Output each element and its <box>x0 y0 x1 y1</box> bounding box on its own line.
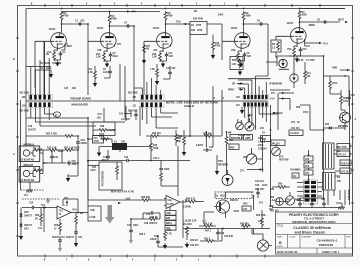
down arrow C5 <box>49 72 53 78</box>
svg-text:.022: .022 <box>169 56 174 58</box>
svg-text:920B: 920B <box>58 151 64 153</box>
svg-text:47UF: 47UF <box>332 82 338 85</box>
resistor R64 <box>225 136 228 146</box>
svg-text:10UF: 10UF <box>133 225 139 227</box>
svg-text:C28 .0047UF: C28 .0047UF <box>144 222 158 225</box>
second bus line <box>88 165 99 167</box>
small arrow mark <box>118 202 121 204</box>
svg-text:REV: REV <box>347 237 352 239</box>
svg-text:A3 02145 AB: A3 02145 AB <box>20 159 34 162</box>
vertical connector block <box>304 180 318 204</box>
cathode network V1B <box>104 48 107 52</box>
svg-text:22A373: 22A373 <box>28 129 37 132</box>
svg-text:4.7K: 4.7K <box>167 233 172 236</box>
relay K1 dark block <box>112 143 127 150</box>
svg-text:470K: 470K <box>197 29 203 32</box>
svg-text:HTR: HTR <box>131 12 136 14</box>
svg-text:.022: .022 <box>80 21 85 23</box>
long vertical right of footswitch <box>161 146 178 196</box>
svg-text:55A373 C13: 55A373 C13 <box>52 236 65 239</box>
wire R4 to tube V1B <box>110 23 135 60</box>
svg-text:L.DLDR C2R: L.DLDR C2R <box>183 221 197 223</box>
right border inner vertical <box>349 90 351 205</box>
svg-text:.0047: .0047 <box>90 169 96 172</box>
jack box 1 <box>19 146 40 162</box>
jack box 2 <box>19 167 40 183</box>
ground V2B cathode <box>239 62 243 68</box>
ground V2A cathode <box>161 62 165 68</box>
ground top gray <box>46 198 50 204</box>
chassis gnd right <box>338 207 344 209</box>
svg-text:FXA: FXA <box>176 21 181 24</box>
svg-text:A011: A011 <box>220 195 226 198</box>
wires right section mesh <box>270 76 349 130</box>
wire bus y161 <box>88 160 190 162</box>
speaker wires <box>254 229 273 246</box>
ground V3A cathode <box>295 57 299 63</box>
svg-text:0.2R2B: 0.2R2B <box>183 207 191 209</box>
label stack under op-amp <box>165 211 176 216</box>
resistor R35 <box>141 199 151 202</box>
resistor R45 <box>203 225 213 228</box>
resistor R6 box left of V3A <box>271 40 281 52</box>
cathode network V2B <box>238 48 241 52</box>
svg-text:FWD: FWD <box>332 68 337 70</box>
resistor cathode V3A <box>293 47 296 57</box>
svg-text:A3B: A3B <box>258 137 263 140</box>
cap C10 box <box>93 136 104 144</box>
svg-text:47UF: 47UF <box>94 140 100 143</box>
capacitor C8 cathode V2B <box>243 52 247 57</box>
svg-text:1.5K: 1.5K <box>232 64 237 66</box>
resistor R9 plate V2B <box>242 11 245 21</box>
resistor R16 to ground <box>212 41 215 51</box>
pot circle left <box>236 122 244 130</box>
svg-text:PREAMP BOARD: PREAMP BOARD <box>71 97 92 100</box>
svg-text:C7 470P: C7 470P <box>306 59 315 62</box>
svg-text:22UF: 22UF <box>258 145 264 147</box>
svg-text:FOOTSWITCH: FOOTSWITCH <box>103 171 105 186</box>
svg-text:47UF: 47UF <box>285 199 291 202</box>
cap C12b <box>204 148 209 152</box>
bus y78.7 <box>228 78 271 80</box>
cap C31 <box>129 228 133 233</box>
separator vertical line <box>323 56 325 200</box>
capacitor C9 cathode V1B <box>109 52 113 57</box>
svg-text:4700: 4700 <box>343 100 349 103</box>
svg-text:345V: 345V <box>218 14 224 17</box>
svg-text:CABLE.: CABLE. <box>184 104 195 108</box>
svg-text:.830V: .830V <box>66 46 72 48</box>
box with label MPS <box>289 130 303 136</box>
svg-text:.022: .022 <box>247 56 252 58</box>
ground R62 <box>182 150 186 156</box>
transformer T2 <box>323 173 336 191</box>
svg-text:47UF: 47UF <box>303 111 309 114</box>
resistor R18 cathode V2A <box>159 52 162 62</box>
box R010 cathode V2B <box>230 57 243 70</box>
wire to tube V3A <box>300 19 341 28</box>
svg-text:A7C 4: A7C 4 <box>153 157 160 160</box>
wires into J21 top <box>134 78 161 95</box>
cap C23 <box>50 154 54 159</box>
svg-text:VB: VB <box>232 84 236 86</box>
connector J20/J10 <box>29 94 53 107</box>
svg-text:1.AA.2: 1.AA.2 <box>258 141 266 144</box>
svg-text:14.V: 14.V <box>270 98 275 101</box>
resistor R4 plate V1B <box>108 14 111 24</box>
reverb pot circle <box>246 154 256 164</box>
resistor R55 <box>75 215 78 225</box>
wire x88 down <box>87 139 89 200</box>
resistor R46 <box>186 226 189 236</box>
board boundary line <box>26 100 268 102</box>
connector J3 right (large) <box>243 95 269 108</box>
junction dots <box>87 23 89 25</box>
svg-text:27V: 27V <box>240 171 245 173</box>
ground under J12 <box>240 108 244 114</box>
horizontals under connectors <box>31 118 125 139</box>
resistor R56 <box>59 222 62 232</box>
capacitor C8 coupling <box>258 22 263 26</box>
svg-text:0.22UF: 0.22UF <box>196 145 204 147</box>
svg-text:16V: 16V <box>321 199 326 201</box>
svg-text:12AX7: 12AX7 <box>97 27 105 30</box>
svg-text:PSM: PSM <box>112 19 117 21</box>
resistor R2 jack2 <box>34 169 44 172</box>
hook wires <box>213 86 224 147</box>
resistor R60 <box>340 95 343 105</box>
ground diodes <box>19 234 23 240</box>
wires into J20 top <box>31 42 51 95</box>
svg-text:R12 56: R12 56 <box>296 60 304 62</box>
op-amp U2A <box>166 196 180 209</box>
svg-text:1N4737: 1N4737 <box>66 236 75 239</box>
ground C29 <box>163 243 167 249</box>
transistor Q2 <box>340 112 351 123</box>
cap C41b <box>134 112 138 117</box>
right column boxes <box>337 144 350 150</box>
wire R8 to tube V2A <box>166 20 191 136</box>
transistor Q1 <box>216 200 229 213</box>
resistor R3 cathode V1A <box>53 51 56 61</box>
resistor R43 <box>241 225 251 228</box>
resistor R27 <box>100 138 110 141</box>
reverb jack circle2 <box>222 175 233 186</box>
svg-text:1.5K: 1.5K <box>150 69 155 71</box>
svg-text:SIG GND: SIG GND <box>128 93 138 95</box>
cap C45 <box>322 201 326 206</box>
svg-text:R45 2.2K: R45 2.2K <box>203 223 213 226</box>
svg-text:R17 1.5K: R17 1.5K <box>47 148 57 150</box>
FWD arrow <box>347 69 350 71</box>
svg-text:470K: 470K <box>215 45 221 48</box>
svg-text:22A2: 22A2 <box>113 55 119 58</box>
transformer T1 <box>323 143 335 169</box>
tube V3A <box>291 28 307 44</box>
ground R17 <box>142 58 146 64</box>
arrow NEXT <box>345 21 348 23</box>
wires into vert connector <box>297 183 322 201</box>
svg-text:5K: 5K <box>35 219 38 221</box>
svg-text:MERIDIAN, MISSISSIPPI 39301: MERIDIAN, MISSISSIPPI 39301 <box>292 220 336 224</box>
svg-text:750K: 750K <box>246 16 252 18</box>
resistor R20 <box>150 142 153 152</box>
wire op-amp input down <box>43 208 45 233</box>
cap C53 <box>67 160 71 165</box>
svg-text:CH: CH <box>293 176 297 178</box>
grid wire V1A <box>35 41 51 95</box>
grid resistor R17 V2A <box>143 44 146 54</box>
capacitor C4 coupling <box>125 24 130 28</box>
svg-text:-C10: -C10 <box>259 128 265 130</box>
pot PRE GAIN <box>279 59 287 67</box>
svg-text:1.AA.2: 1.AA.2 <box>270 199 278 202</box>
svg-text:R010: R010 <box>232 60 238 62</box>
svg-text:R63 68K: R63 68K <box>203 134 212 136</box>
ground R55 <box>74 241 78 247</box>
bottom bus <box>183 200 270 238</box>
wire send to rail <box>289 56 324 88</box>
ground C18 <box>66 176 70 182</box>
resistor R57 <box>64 135 74 138</box>
jack output wire <box>40 153 48 174</box>
svg-text:R66 0.22: R66 0.22 <box>186 199 196 201</box>
svg-text:R40 A: R40 A <box>139 233 146 236</box>
cap C50 <box>347 95 351 100</box>
svg-text:JP1 2.2: JP1 2.2 <box>338 155 347 157</box>
tube V1B <box>101 33 117 49</box>
svg-text:PREH: PREH <box>228 90 235 92</box>
jack circle 2 <box>23 170 29 176</box>
long verticals V1B to connector <box>120 60 134 118</box>
output jack J9 <box>257 240 268 251</box>
pot circle plus <box>276 198 284 206</box>
tube V2B <box>235 33 251 49</box>
cathode network V1A <box>54 44 68 51</box>
ground K1 <box>97 151 101 157</box>
resistor R51b <box>205 240 215 243</box>
resistor R26 <box>175 133 178 143</box>
dashed chassis line <box>21 190 61 199</box>
svg-text:12AX7: 12AX7 <box>287 22 295 25</box>
svg-text:TITLE: TITLE <box>277 225 284 228</box>
svg-text:V1A: V1A <box>47 51 52 54</box>
svg-text:R46 2R: R46 2R <box>190 239 198 242</box>
right mesh wires <box>328 146 353 205</box>
svg-text:C4B: C4B <box>90 209 95 212</box>
FX send jack <box>279 59 287 67</box>
connector J2 mid <box>140 94 164 107</box>
ground C31 gray <box>129 238 133 244</box>
svg-text:VR4: VR4 <box>243 203 248 206</box>
svg-text:JP2 2B: JP2 2B <box>341 172 349 174</box>
feedback loop U3B <box>63 199 88 213</box>
resistor R34 <box>40 213 43 223</box>
border zone ticks left <box>16 38 19 236</box>
svg-text:CR4: CR4 <box>24 228 29 231</box>
svg-text:R29 10K: R29 10K <box>255 189 264 191</box>
svg-text:27V: 27V <box>259 203 264 205</box>
cap C12 <box>125 159 130 163</box>
svg-text:JP 47UF: JP 47UF <box>338 146 347 149</box>
resistor R23 horizontal <box>150 135 160 138</box>
wires out J11 bottom <box>142 108 178 129</box>
svg-text:SIZE: SIZE <box>277 237 282 239</box>
svg-text:V2A: V2A <box>153 49 158 52</box>
svg-text:J7B: J7B <box>270 189 275 191</box>
svg-text:EFX: EFX <box>279 157 284 159</box>
dashed box J11 <box>215 192 252 199</box>
ground R14b <box>93 81 97 87</box>
capacitor cathode V3A <box>299 47 303 52</box>
large gray ground arrow <box>105 205 115 224</box>
top right rail <box>300 8 346 10</box>
svg-text:NUMBER: NUMBER <box>302 237 312 239</box>
svg-text:1N4737: 1N4737 <box>24 224 33 227</box>
box PRE row2 <box>229 144 239 150</box>
capacitor C2 cathode V1A <box>59 51 63 56</box>
arrow on heater wire <box>127 10 130 12</box>
arrow FX A <box>319 42 322 44</box>
svg-text:MAIN BOARD: MAIN BOARD <box>72 103 88 106</box>
resistor R2 plate V1A <box>60 11 63 21</box>
svg-text:.06800: .06800 <box>308 25 316 27</box>
resistor R14b <box>94 70 97 80</box>
wire pot to vertical <box>257 136 263 172</box>
wires into J22 top <box>238 76 266 95</box>
svg-text:R35 63B: R35 63B <box>141 197 150 199</box>
svg-text:NEXT: NEXT <box>338 20 345 22</box>
wire to C5 arrow <box>26 66 51 68</box>
svg-text:R33 41K: R33 41K <box>152 132 161 135</box>
svg-text:1.5K: 1.5K <box>152 57 157 59</box>
wire plate R2 to tube <box>62 20 89 33</box>
footswitch box <box>99 162 122 190</box>
svg-text:and Blues Classic: and Blues Classic <box>295 230 326 234</box>
svg-text:CMPD: CMPD <box>277 246 284 248</box>
svg-text:CB #96065/3+1: CB #96065/3+1 <box>316 239 337 243</box>
svg-text:V3A: V3A <box>287 48 292 51</box>
svg-text:V1B: V1B <box>97 50 102 52</box>
resistor R1 jack1 <box>34 149 44 152</box>
svg-text:.022: .022 <box>171 68 176 70</box>
efx return jack <box>272 147 281 156</box>
jack circle 1 <box>23 150 29 156</box>
diode CR3 vertical <box>20 208 22 233</box>
svg-text:2N3716: 2N3716 <box>230 200 239 202</box>
box around V3A input <box>277 56 292 66</box>
op-amp U3B <box>57 206 71 219</box>
left rail wire <box>25 9 27 146</box>
svg-text:U2A: U2A <box>168 199 173 202</box>
resistor R37 <box>64 149 74 152</box>
svg-text:C61 104: C61 104 <box>291 127 300 130</box>
CH box <box>292 173 299 178</box>
long vertical power section boundary <box>270 105 272 207</box>
cap C24 <box>74 230 78 235</box>
tube V2A <box>157 33 173 49</box>
svg-text:22A2: 22A2 <box>46 67 52 70</box>
bus wire bottom <box>88 161 101 206</box>
border zone ticks top <box>45 4 320 7</box>
svg-text:C34 R49: C34 R49 <box>224 235 234 238</box>
node dot B+ V1A <box>61 8 63 10</box>
resistor R63 <box>203 135 213 138</box>
svg-text:1.5K: 1.5K <box>88 72 93 74</box>
resistor R18b <box>156 68 159 78</box>
svg-text:1M: 1M <box>146 49 149 51</box>
resistor R12 150 <box>304 70 307 80</box>
boxes PWR VR8 <box>230 135 242 141</box>
svg-text:R51 5: R51 5 <box>204 239 211 241</box>
resistor R36b <box>148 218 158 221</box>
svg-text:100K: 100K <box>302 15 308 17</box>
svg-text:CR1: CR1 <box>121 142 126 144</box>
FX return jack <box>290 74 298 82</box>
cap C44 <box>310 201 314 206</box>
bottom left jack <box>285 196 294 205</box>
svg-text:82B: 82B <box>166 218 171 220</box>
small caps cluster <box>256 190 260 195</box>
svg-text:DATE 20-MAY-92: DATE 20-MAY-92 <box>277 250 298 254</box>
cathode network V3A <box>294 39 310 47</box>
resistor R51 <box>48 149 58 152</box>
box around send <box>266 62 289 69</box>
ground mid <box>215 169 219 175</box>
svg-text:AMP: AMP <box>245 137 251 140</box>
svg-text:R67 4.70R: R67 4.70R <box>46 133 57 136</box>
svg-text:R50 1.3K: R50 1.3K <box>256 215 266 217</box>
svg-text:SIG GND: SIG GND <box>20 93 30 95</box>
svg-text:PR20016S: PR20016S <box>319 243 334 247</box>
resistor R30 <box>160 172 163 182</box>
diodes D51 <box>327 126 332 129</box>
resistor R62 <box>183 136 186 146</box>
vertical wires under J21 <box>126 106 140 136</box>
title block <box>276 212 353 254</box>
resistor R14 cathode V1B <box>103 52 106 62</box>
svg-text:A 12A22: A 12A22 <box>121 118 131 121</box>
grid wire V2A <box>144 41 157 95</box>
svg-text:1N4737: 1N4737 <box>24 215 33 218</box>
resistor R66 <box>187 200 197 203</box>
svg-text:TL072: TL072 <box>167 204 174 206</box>
svg-text:VFORWARD: VFORWARD <box>269 83 282 86</box>
tube V1A <box>51 33 67 49</box>
left rail wire 2 <box>20 100 22 190</box>
svg-text:A 12A22: A 12A22 <box>290 132 300 135</box>
border zone ticks bottom <box>45 255 265 258</box>
svg-text:A 12A22: A 12A22 <box>107 129 117 132</box>
svg-text:C26 104: C26 104 <box>258 148 267 151</box>
wires out J10 bottom <box>26 108 49 127</box>
svg-text:141.: 141. <box>38 227 43 230</box>
svg-text:PRE: PRE <box>230 148 235 150</box>
svg-text:SIG GND: SIG GND <box>128 111 138 113</box>
svg-text:R10 470K: R10 470K <box>193 18 204 21</box>
grid wire V3A <box>276 36 291 40</box>
VR3 box <box>271 140 285 146</box>
cap C16 <box>216 230 220 235</box>
svg-text:200K: 200K <box>164 169 170 171</box>
resistor R42 <box>164 231 167 241</box>
wire B+ to R4 <box>109 11 111 13</box>
B+ supply rail <box>26 8 345 10</box>
cathode network V2A <box>160 48 163 52</box>
resistor R4B plate V3A <box>298 10 301 20</box>
svg-text:B: B <box>279 241 282 245</box>
